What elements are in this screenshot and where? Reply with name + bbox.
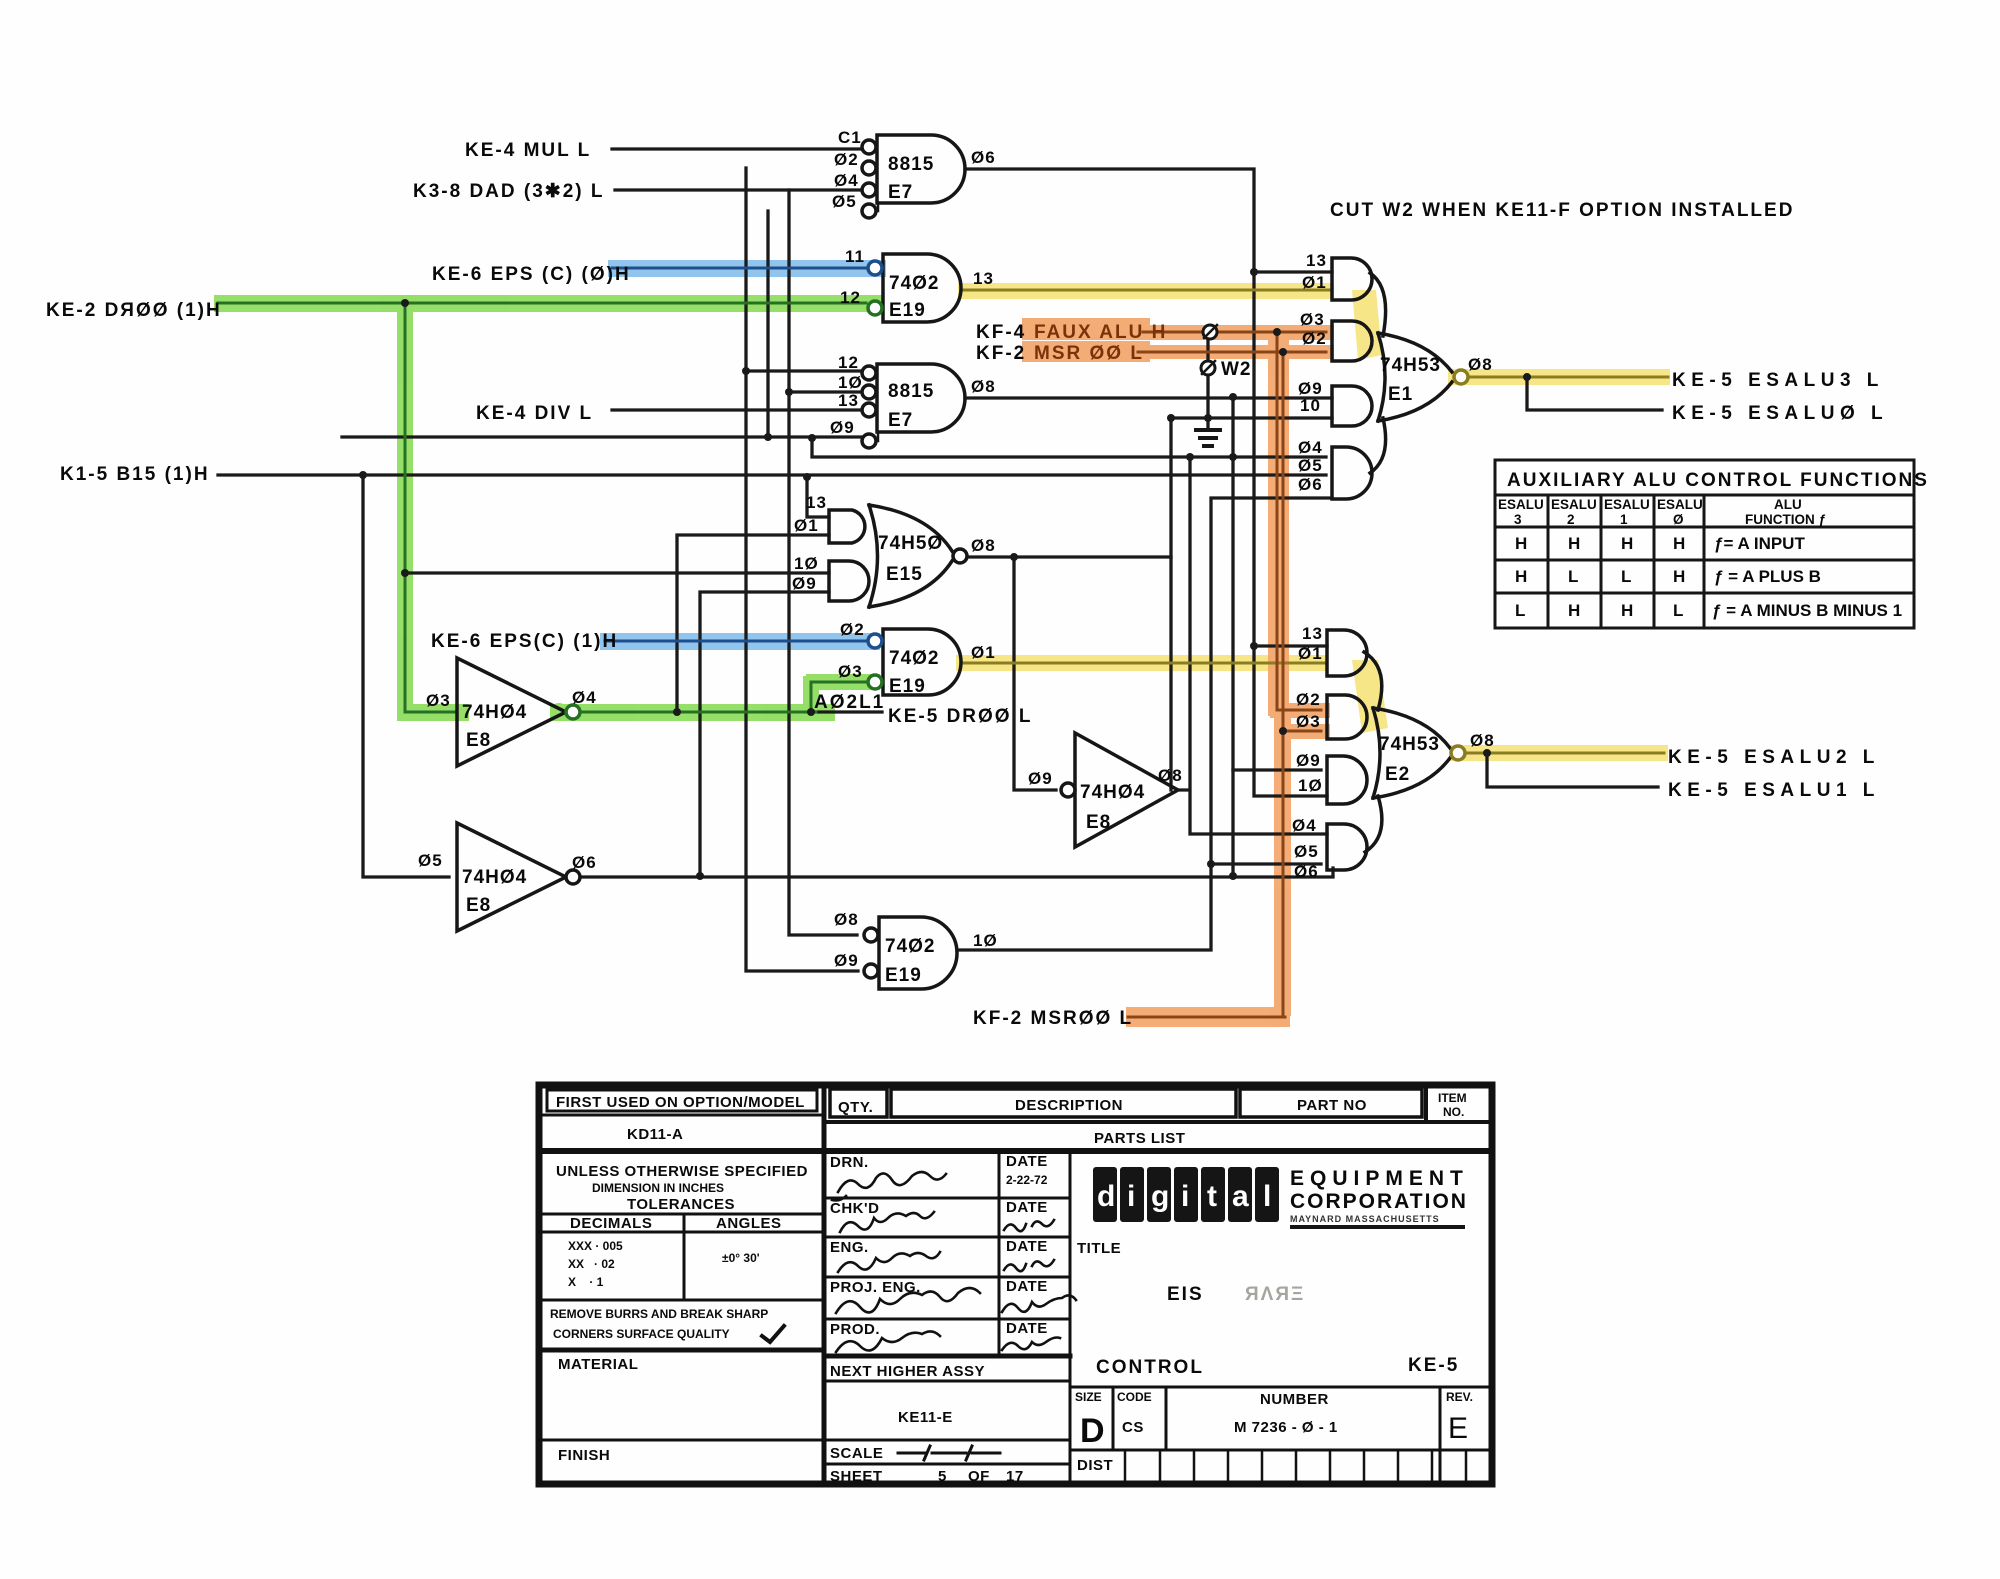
svg-text:E15: E15 bbox=[886, 564, 923, 585]
svg-text:E19: E19 bbox=[889, 676, 926, 697]
svg-text:Ø9: Ø9 bbox=[1296, 751, 1321, 770]
svg-text:Ø5: Ø5 bbox=[1294, 842, 1319, 861]
svg-text:KE-5 ESALU1 L: KE-5 ESALU1 L bbox=[1668, 780, 1880, 801]
wire E7 pin 12 feed bbox=[746, 369, 862, 372]
svg-text:1Ø: 1Ø bbox=[973, 931, 998, 950]
svg-text:Ø4: Ø4 bbox=[834, 171, 859, 190]
svg-text:PART NO: PART NO bbox=[1297, 1097, 1367, 1114]
wire green KE-2 DR00(1)H bus bbox=[218, 303, 866, 712]
svg-text:KD11-A: KD11-A bbox=[627, 1126, 683, 1143]
wire bus v768 E7 pin 05 bbox=[766, 211, 769, 437]
svg-text:KE-5 ESALUØ L: KE-5 ESALUØ L bbox=[1672, 403, 1888, 424]
svg-text:H: H bbox=[1621, 601, 1633, 620]
svg-text:E7: E7 bbox=[888, 410, 913, 431]
svg-text:TITLE: TITLE bbox=[1077, 1240, 1121, 1257]
svg-text:FAUX ALU H: FAUX ALU H bbox=[1034, 322, 1167, 343]
svg-text:ITEM: ITEM bbox=[1438, 1091, 1467, 1105]
svg-text:ƒ = A PLUS B: ƒ = A PLUS B bbox=[1714, 567, 1821, 586]
svg-text:EQUIPMENT: EQUIPMENT bbox=[1290, 1167, 1469, 1190]
wire KE-4 DIV L to E7 pin 13 bbox=[612, 408, 862, 411]
wire KE-5 ESALU1 L branch bbox=[1487, 753, 1658, 787]
svg-text:1Ø: 1Ø bbox=[1298, 776, 1323, 795]
svg-text:AØ2L1: AØ2L1 bbox=[814, 692, 885, 713]
middle column rows bbox=[824, 1198, 1070, 1319]
jumper W2 bbox=[1203, 325, 1217, 339]
wire W2 jumper stem to ground bbox=[1206, 339, 1209, 429]
wire blue KE-6 EPS(C)(1)H to E19 pin 02 bbox=[605, 640, 866, 643]
wire ground net to E1 pin 10 bbox=[1171, 418, 1332, 790]
svg-text:13: 13 bbox=[1306, 251, 1327, 270]
wire KE-4 MUL L to E7 pin C1 bbox=[612, 147, 862, 150]
svg-text:74Ø2: 74Ø2 bbox=[885, 936, 935, 957]
svg-text:CORPORATION: CORPORATION bbox=[1290, 1190, 1468, 1213]
gate E19 7402 (first) bbox=[883, 254, 961, 322]
svg-text:Ø1: Ø1 bbox=[1302, 273, 1327, 292]
svg-text:MAYNARD MASSACHUSETTS: MAYNARD MASSACHUSETTS bbox=[1290, 1214, 1440, 1224]
svg-text:74HØ4: 74HØ4 bbox=[462, 702, 527, 723]
wire orange KF-4 FAUX ALU H to E1 pin 03 bbox=[1143, 331, 1326, 334]
wire E2 pin 09 feed bbox=[1233, 768, 1321, 771]
wire E15 pin 01 riser bbox=[677, 535, 829, 712]
svg-text:KE11-E: KE11-E bbox=[898, 1409, 953, 1426]
gate E19 7402 (third) bbox=[879, 917, 957, 989]
wire bus v789 DAD to E19 pin 08 bbox=[789, 190, 857, 935]
svg-text:KE-4 DIV L: KE-4 DIV L bbox=[476, 403, 593, 424]
svg-text:H: H bbox=[1621, 534, 1633, 553]
svg-text:3: 3 bbox=[1514, 512, 1522, 527]
table AUXILIARY ALU CONTROL FUNCTIONS bbox=[1495, 460, 1914, 628]
wire blue KE-6 EPS(C)(0)H to E19 pin 11 bbox=[612, 267, 866, 270]
inverter E8 74H04 (second) bbox=[457, 823, 566, 931]
svg-text:DATE: DATE bbox=[1006, 1278, 1048, 1295]
gate E1 74H53 AOI bbox=[1332, 258, 1372, 300]
svg-text:ƒ = A MINUS B MINUS 1: ƒ = A MINUS B MINUS 1 bbox=[1712, 601, 1902, 620]
svg-text:E7: E7 bbox=[888, 182, 913, 203]
svg-text:FIRST USED ON OPTION/MODEL: FIRST USED ON OPTION/MODEL bbox=[556, 1094, 805, 1111]
wire E2 pin 05 feed bbox=[1211, 862, 1321, 865]
svg-text:CUT W2 WHEN KE11-F OPTION: CUT W2 WHEN KE11-F OPTION INSTALLED bbox=[1330, 200, 1794, 221]
svg-text:REV.: REV. bbox=[1446, 1390, 1473, 1404]
svg-text:DIMENSION IN INCHES: DIMENSION IN INCHES bbox=[592, 1181, 724, 1195]
inverter E8 74H04 (third) bbox=[1075, 733, 1178, 847]
svg-text:E1: E1 bbox=[1388, 384, 1413, 405]
ground symbol bbox=[1196, 430, 1220, 446]
svg-text:8815: 8815 bbox=[888, 154, 934, 175]
svg-text:5: 5 bbox=[938, 1468, 947, 1485]
svg-text:Ø8: Ø8 bbox=[971, 536, 996, 555]
wire B15 branch to inverter E8 pin 05 bbox=[363, 475, 449, 877]
svg-text:KE-5 ESALU2 L: KE-5 ESALU2 L bbox=[1668, 747, 1880, 768]
wire E15 output branch to inverter E8 pin 09 bbox=[1014, 557, 1056, 790]
svg-text:d: d bbox=[1097, 1180, 1115, 1213]
svg-text:Ø2: Ø2 bbox=[1302, 329, 1327, 348]
svg-text:L: L bbox=[1621, 567, 1631, 586]
svg-text:±0° 30': ±0° 30' bbox=[722, 1251, 760, 1265]
svg-text:L: L bbox=[1568, 567, 1578, 586]
svg-text:Ø9: Ø9 bbox=[1028, 769, 1053, 788]
svg-text:KE-5 DRØØ L: KE-5 DRØØ L bbox=[888, 706, 1032, 727]
wire yellow E1 output 08 KE-5 ESALU3 L bbox=[1469, 376, 1668, 379]
svg-text:E19: E19 bbox=[885, 965, 922, 986]
svg-text:Ø9: Ø9 bbox=[792, 574, 817, 593]
svg-text:K1-5 B15 (1)H: K1-5 B15 (1)H bbox=[60, 464, 210, 485]
wire node 06 riser to E1 pin 04 bbox=[812, 437, 1326, 457]
svg-text:Ø8: Ø8 bbox=[971, 377, 996, 396]
svg-text:Ø5: Ø5 bbox=[832, 192, 857, 211]
svg-text:X · 1: X · 1 bbox=[568, 1275, 604, 1289]
svg-text:i: i bbox=[1181, 1180, 1189, 1213]
svg-text:OF: OF bbox=[968, 1468, 990, 1485]
svg-text:H: H bbox=[1568, 534, 1580, 553]
svg-text:H: H bbox=[1515, 567, 1527, 586]
svg-text:K3-8 DAD (3✱2) L: K3-8 DAD (3✱2) L bbox=[413, 181, 605, 202]
DEC digital logo bbox=[1093, 1167, 1469, 1229]
svg-text:Ø3: Ø3 bbox=[426, 691, 451, 710]
svg-text:QTY.: QTY. bbox=[838, 1099, 873, 1116]
svg-text:10: 10 bbox=[1300, 396, 1321, 415]
highlight band: blue net KE-6 EPS(C)(0)H bbox=[608, 260, 886, 277]
svg-text:Ø1: Ø1 bbox=[971, 643, 996, 662]
wire E15 pin 09 feed bbox=[700, 592, 829, 876]
svg-text:H: H bbox=[1673, 567, 1685, 586]
svg-text:Ø8: Ø8 bbox=[1470, 731, 1495, 750]
svg-text:t: t bbox=[1207, 1180, 1217, 1213]
svg-text:E: E bbox=[1448, 1412, 1468, 1445]
svg-text:Ø8: Ø8 bbox=[1158, 766, 1183, 785]
svg-text:NO.: NO. bbox=[1443, 1105, 1464, 1119]
left column dividers bbox=[539, 1114, 824, 1117]
svg-text:E8: E8 bbox=[466, 895, 491, 916]
svg-text:Ø9: Ø9 bbox=[834, 951, 859, 970]
svg-text:Ø2: Ø2 bbox=[1296, 690, 1321, 709]
wire E7 E7-1 output 06 to E1 pin 13 and E2 pin 13 bbox=[965, 169, 1332, 796]
svg-text:ESALU: ESALU bbox=[1498, 497, 1544, 512]
svg-text:74Ø2: 74Ø2 bbox=[889, 648, 939, 669]
svg-text:MATERIAL: MATERIAL bbox=[558, 1356, 638, 1373]
svg-text:CODE: CODE bbox=[1117, 1390, 1152, 1404]
svg-text:Ø6: Ø6 bbox=[1294, 862, 1319, 881]
svg-text:ЯΛЯΞ: ЯΛЯΞ bbox=[1245, 1284, 1305, 1305]
svg-text:Ø3: Ø3 bbox=[838, 662, 863, 681]
wire node 06 stub to E7 pin 09 bbox=[342, 435, 861, 438]
svg-text:KF-2: KF-2 bbox=[976, 343, 1026, 364]
gate E2 74H53 AOI bbox=[1327, 630, 1367, 676]
svg-text:KE-2 DЯØØ (1)H: KE-2 DЯØØ (1)H bbox=[46, 300, 222, 321]
wire E7 pin 10 feed bbox=[789, 390, 862, 393]
svg-text:Ø6: Ø6 bbox=[572, 853, 597, 872]
svg-text:FINISH: FINISH bbox=[558, 1447, 610, 1464]
svg-text:13: 13 bbox=[806, 493, 827, 512]
wire E15 pin 10 feed from DR00 bbox=[405, 571, 829, 574]
svg-text:DATE: DATE bbox=[1006, 1238, 1048, 1255]
svg-text:TOLERANCES: TOLERANCES bbox=[627, 1196, 735, 1213]
svg-text:H: H bbox=[1568, 601, 1580, 620]
svg-text:1: 1 bbox=[1620, 512, 1628, 527]
svg-text:DRN.: DRN. bbox=[830, 1154, 869, 1171]
svg-text:KE-5: KE-5 bbox=[1408, 1355, 1459, 1376]
svg-text:MSR ØØ L: MSR ØØ L bbox=[1034, 343, 1144, 364]
svg-text:g: g bbox=[1151, 1180, 1169, 1213]
svg-text:17: 17 bbox=[1006, 1468, 1024, 1485]
svg-text:8815: 8815 bbox=[888, 381, 934, 402]
wire K3-8 DAD to E7 pin 04 bbox=[615, 188, 862, 191]
svg-text:ALU: ALU bbox=[1774, 497, 1802, 512]
svg-text:74HØ4: 74HØ4 bbox=[1080, 782, 1145, 803]
svg-text:L: L bbox=[1673, 601, 1683, 620]
svg-text:Ø8: Ø8 bbox=[834, 910, 859, 929]
svg-text:Ø4: Ø4 bbox=[1292, 816, 1317, 835]
wire K1-5 B15 bus bbox=[218, 473, 1326, 476]
svg-text:CHK'D: CHK'D bbox=[830, 1200, 879, 1217]
svg-text:NEXT HIGHER ASSY: NEXT HIGHER ASSY bbox=[830, 1363, 985, 1380]
svg-text:ESALU: ESALU bbox=[1604, 497, 1650, 512]
wire E15 output 08 bbox=[965, 555, 1171, 558]
svg-text:SCALE: SCALE bbox=[830, 1445, 883, 1462]
svg-text:Ø6: Ø6 bbox=[1298, 475, 1323, 494]
svg-text:H: H bbox=[1515, 534, 1527, 553]
svg-text:Ø5: Ø5 bbox=[1298, 456, 1323, 475]
svg-text:DATE: DATE bbox=[1006, 1153, 1048, 1170]
svg-text:EIS: EIS bbox=[1167, 1284, 1204, 1305]
svg-text:KE-6 EPS (C) (Ø)H: KE-6 EPS (C) (Ø)H bbox=[432, 264, 631, 285]
svg-text:W2: W2 bbox=[1221, 359, 1252, 380]
svg-text:FUNCTION ƒ: FUNCTION ƒ bbox=[1745, 512, 1826, 527]
svg-text:KE-6 EPS(C) (1)H: KE-6 EPS(C) (1)H bbox=[431, 631, 618, 652]
wire E15 pin 13 riser bbox=[807, 477, 829, 517]
svg-text:13: 13 bbox=[973, 269, 994, 288]
scale strike squiggle bbox=[898, 1452, 1000, 1455]
svg-text:DECIMALS: DECIMALS bbox=[570, 1215, 652, 1232]
svg-text:Ø3: Ø3 bbox=[1296, 712, 1321, 731]
wire bus v746 E7 pin 02 to E19 pin 09 bbox=[746, 168, 858, 971]
svg-text:SIZE: SIZE bbox=[1075, 1390, 1102, 1404]
svg-text:DATE: DATE bbox=[1006, 1320, 1048, 1337]
svg-text:E8: E8 bbox=[466, 730, 491, 751]
svg-text:Ø1: Ø1 bbox=[1298, 644, 1323, 663]
svg-text:L: L bbox=[1515, 601, 1525, 620]
svg-text:C1: C1 bbox=[838, 128, 862, 147]
gate E7 8815 (top) bbox=[877, 135, 965, 203]
svg-text:KF-2 MSRØØ L: KF-2 MSRØØ L bbox=[973, 1008, 1133, 1029]
wire KE-5 ESALU0 L branch bbox=[1527, 377, 1662, 410]
svg-text:KE-4 MUL L: KE-4 MUL L bbox=[465, 140, 591, 161]
svg-text:Ø2: Ø2 bbox=[834, 150, 859, 169]
svg-text:UNLESS OTHERWISE SPECIFIED: UNLESS OTHERWISE SPECIFIED bbox=[556, 1163, 808, 1180]
svg-text:1Ø: 1Ø bbox=[838, 373, 863, 392]
highlight band: green net KE-2 DR00(1)H bbox=[214, 295, 882, 721]
svg-text:11: 11 bbox=[845, 247, 865, 266]
svg-text:1Ø: 1Ø bbox=[794, 554, 819, 573]
svg-text:74HØ4: 74HØ4 bbox=[462, 867, 527, 888]
svg-text:i: i bbox=[1127, 1180, 1135, 1213]
wire green inverter E8-1 output 04 bbox=[566, 682, 866, 712]
svg-text:KE-5 ESALU3 L: KE-5 ESALU3 L bbox=[1672, 370, 1884, 391]
highlight band: orange net FAUX ALU / MSR00 bbox=[1022, 318, 1334, 1027]
svg-text:ESALU: ESALU bbox=[1657, 497, 1703, 512]
svg-text:74H53: 74H53 bbox=[1379, 734, 1440, 755]
svg-text:XXX · 005: XXX · 005 bbox=[568, 1239, 623, 1253]
svg-text:CONTROL: CONTROL bbox=[1096, 1357, 1204, 1378]
svg-text:2-22-72: 2-22-72 bbox=[1006, 1173, 1048, 1187]
svg-text:Ø9: Ø9 bbox=[830, 418, 855, 437]
svg-text:Ø1: Ø1 bbox=[794, 516, 819, 535]
svg-text:Ø2: Ø2 bbox=[840, 620, 865, 639]
svg-text:DESCRIPTION: DESCRIPTION bbox=[1015, 1097, 1123, 1114]
wire KE-5 DR00 L stub bbox=[816, 710, 882, 713]
highlight band: blue net KE-6 EPS(C)(1)H bbox=[600, 633, 880, 650]
svg-text:12: 12 bbox=[838, 353, 859, 372]
inverter E8 74H04 (first) bbox=[457, 658, 566, 766]
wire orange KF-2 MSR 00 L to E1 pin 02 bbox=[1138, 351, 1326, 354]
parts list header cells bbox=[830, 1089, 887, 1117]
svg-text:E8: E8 bbox=[1086, 812, 1111, 833]
svg-text:l: l bbox=[1263, 1180, 1271, 1213]
svg-text:12: 12 bbox=[840, 288, 861, 307]
signature scribbles bbox=[832, 1172, 1076, 1352]
highlight band: yellow net ESALU2 bbox=[956, 655, 1668, 761]
svg-text:CS: CS bbox=[1122, 1419, 1144, 1436]
svg-text:PARTS LIST: PARTS LIST bbox=[1094, 1130, 1185, 1147]
svg-text:Ø3: Ø3 bbox=[1300, 310, 1325, 329]
svg-text:74Ø2: 74Ø2 bbox=[889, 273, 939, 294]
svg-text:DIST: DIST bbox=[1077, 1457, 1113, 1474]
svg-text:Ø5: Ø5 bbox=[418, 851, 443, 870]
svg-text:E2: E2 bbox=[1385, 764, 1410, 785]
svg-text:PROD.: PROD. bbox=[830, 1321, 880, 1338]
svg-text:13: 13 bbox=[838, 391, 859, 410]
title block outer border bbox=[539, 1085, 1492, 1484]
highlight band: yellow net ESALU3 bbox=[958, 283, 1670, 385]
svg-text:M 7236 - Ø - 1: M 7236 - Ø - 1 bbox=[1234, 1419, 1338, 1436]
svg-text:74H5Ø: 74H5Ø bbox=[878, 533, 943, 554]
wire E7-2 output 08 to E1 pin 09 bbox=[965, 396, 1332, 399]
svg-text:AUXILIARY ALU CONTROL FUNCT: AUXILIARY ALU CONTROL FUNCTIONS bbox=[1507, 470, 1929, 491]
svg-text:Ø4: Ø4 bbox=[1298, 438, 1323, 457]
svg-text:ESALU: ESALU bbox=[1551, 497, 1597, 512]
svg-text:Ø6: Ø6 bbox=[971, 148, 996, 167]
svg-text:ƒ= A INPUT: ƒ= A INPUT bbox=[1714, 534, 1805, 553]
svg-text:Ø8: Ø8 bbox=[1468, 355, 1493, 374]
wire bus v1233 bbox=[1231, 397, 1234, 877]
wire inverter E8 output 08 to E2 pin 04 bbox=[1178, 457, 1327, 834]
wire yellow E19-2 output 01 to E2 pin 01 bbox=[961, 662, 1327, 665]
svg-text:ENG.: ENG. bbox=[830, 1239, 869, 1256]
svg-text:XX · 02: XX · 02 bbox=[568, 1257, 615, 1271]
wire orange KF-2 MSR00 L riser to E2 pin 03 bbox=[1128, 352, 1321, 1017]
svg-text:2: 2 bbox=[1567, 512, 1575, 527]
svg-text:KF-4: KF-4 bbox=[976, 322, 1026, 343]
wire yellow E2 output 08 KE-5 ESALU2 L bbox=[1466, 752, 1664, 755]
svg-text:SHEET: SHEET bbox=[830, 1468, 883, 1485]
svg-text:H: H bbox=[1673, 534, 1685, 553]
svg-text:Ø: Ø bbox=[1673, 512, 1684, 527]
wire yellow E19-1 output 13 to E1 pin 01 bbox=[961, 289, 1332, 292]
svg-text:DATE: DATE bbox=[1006, 1199, 1048, 1216]
svg-text:NUMBER: NUMBER bbox=[1260, 1391, 1329, 1408]
gate E7 8815 (second) bbox=[877, 364, 965, 432]
svg-text:Ø4: Ø4 bbox=[572, 688, 597, 707]
gate E19 7402 (second) bbox=[883, 629, 961, 695]
svg-text:a: a bbox=[1232, 1180, 1249, 1213]
svg-text:74H53: 74H53 bbox=[1380, 355, 1441, 376]
svg-text:ANGLES: ANGLES bbox=[716, 1215, 782, 1232]
svg-text:13: 13 bbox=[1302, 624, 1323, 643]
right column rows bbox=[1070, 1386, 1492, 1389]
svg-text:E19: E19 bbox=[889, 300, 926, 321]
junction dots bbox=[359, 268, 1531, 880]
svg-text:CORNERS SURFACE QUALITY: CORNERS SURFACE QUALITY bbox=[553, 1327, 730, 1341]
svg-text:D: D bbox=[1080, 1412, 1105, 1450]
wire orange trunk FAUX to E2 pin 02 bbox=[1277, 332, 1321, 710]
gate E15 74H50 AOI bbox=[829, 510, 865, 543]
svg-text:REMOVE BURRS AND BREAK SHARP: REMOVE BURRS AND BREAK SHARP bbox=[550, 1307, 768, 1321]
wire inverter E8-2 output 06 to E2 pin 06 bbox=[565, 868, 1333, 877]
wire E19-3 output 10 to E1 pin 06 bbox=[957, 498, 1332, 950]
